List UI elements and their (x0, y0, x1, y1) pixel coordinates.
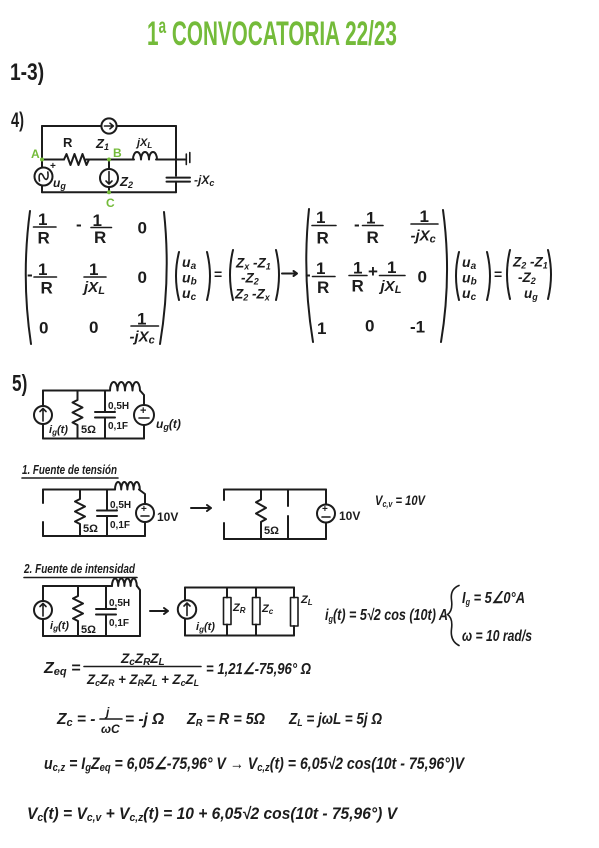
svg-text:0,1F: 0,1F (109, 618, 129, 629)
svg-text:5Ω: 5Ω (81, 424, 96, 436)
current source ig (34, 406, 52, 424)
vector u parens (176, 252, 179, 300)
svg-text:0: 0 (138, 268, 147, 287)
left matrix paren open (26, 211, 31, 344)
title (147, 15, 397, 52)
svg-text:ug(t): ug(t) (156, 417, 181, 432)
svg-text:Vc(t) = Vc,v + Vc,z(t) = 10 +: Vc(t) = Vc,v + Vc,z(t) = 10 + 6,05√2 cos… (27, 805, 399, 824)
svg-text:Zc = -: Zc = - (56, 711, 95, 729)
current source Z1 (101, 118, 116, 133)
svg-text:=: = (214, 266, 222, 282)
current source ig (178, 600, 196, 618)
svg-text:+: + (140, 405, 146, 417)
wire bottom (43, 438, 144, 440)
impedance Zc (255, 588, 257, 636)
svg-text:4): 4) (11, 108, 24, 131)
svg-text:0,1F: 0,1F (110, 520, 130, 531)
voltage source 10V (317, 505, 335, 523)
svg-text:Ig = 5∠0°A: Ig = 5∠0°A (462, 590, 525, 607)
svg-text:R: R (367, 228, 379, 247)
node B (107, 158, 111, 162)
svg-text:1: 1 (317, 319, 326, 338)
wire left (42, 586, 44, 636)
voltage source ug (134, 405, 154, 425)
svg-text:5): 5) (12, 372, 27, 397)
svg-text:B: B (113, 146, 122, 160)
wire bottom (42, 191, 176, 193)
wire left (184, 588, 186, 636)
wire right (139, 490, 145, 537)
svg-text:0: 0 (89, 318, 98, 337)
label 5) (12, 372, 27, 397)
resistor 5ohm (73, 391, 83, 439)
left matrix paren close (160, 212, 167, 344)
svg-text:ig(t): ig(t) (196, 621, 215, 634)
svg-text:+: + (322, 504, 328, 515)
wire right (175, 126, 177, 192)
circuit 1a (43, 482, 178, 536)
circuit 1b (224, 490, 360, 540)
svg-text:5Ω: 5Ω (264, 525, 279, 537)
svg-text:=: = (494, 266, 502, 282)
arrow (282, 271, 297, 276)
wire left (41, 126, 43, 192)
svg-text:ig(t): ig(t) (49, 424, 68, 437)
arrow (191, 505, 211, 511)
capacitor 0.1F (97, 490, 117, 537)
capacitor 0.1F (96, 586, 116, 636)
wire right (293, 588, 295, 636)
svg-text:R: R (38, 229, 50, 248)
svg-text:1: 1 (38, 260, 47, 279)
resistor 5ohm (73, 586, 83, 636)
resistor 5ohm (75, 490, 85, 537)
wire bottom (185, 635, 294, 637)
connector bars (186, 153, 190, 165)
vector z parens (230, 250, 233, 300)
svg-text:-: - (76, 215, 82, 234)
svg-text:0,5H: 0,5H (108, 401, 129, 412)
svg-text:A: A (31, 147, 40, 161)
wire left open (223, 490, 225, 540)
svg-text:0,5H: 0,5H (110, 500, 131, 511)
svg-text:1: 1 (38, 210, 47, 229)
wire top (43, 489, 115, 491)
svg-text:ig(t): ig(t) (50, 620, 69, 633)
voltage source 10V (136, 504, 154, 522)
svg-text:0,5H: 0,5H (109, 598, 130, 609)
svg-text:+: + (141, 504, 147, 515)
node C (107, 190, 111, 194)
wire top (185, 587, 294, 589)
vector u2 parens (456, 252, 459, 300)
svg-text:R: R (94, 228, 106, 247)
svg-text:0: 0 (365, 317, 374, 336)
svg-text:= -j Ω: = -j Ω (125, 711, 164, 728)
open capacitor branch (287, 490, 289, 540)
svg-text:1: 1 (89, 260, 98, 279)
resistor R (64, 154, 89, 165)
svg-text:+: + (50, 161, 56, 172)
svg-text:-: - (305, 265, 311, 284)
inductor 0.5H (110, 382, 140, 391)
wire left open (42, 490, 44, 537)
wire top (43, 390, 110, 392)
svg-text:ωC: ωC (101, 722, 120, 736)
svg-text:Zx -Z1: Zx -Z1 (235, 256, 271, 272)
svg-text:0,1F: 0,1F (108, 421, 128, 432)
svg-text:10V: 10V (157, 510, 178, 524)
brace (448, 586, 460, 646)
svg-text:ω = 10 rad/s: ω = 10 rad/s (462, 628, 532, 645)
wire left (42, 391, 44, 439)
wire top (43, 585, 112, 587)
wire right (140, 391, 144, 439)
node A (40, 158, 44, 162)
wire bottom (43, 535, 145, 537)
wire right (325, 490, 327, 540)
svg-text:1: 1 (316, 259, 325, 278)
circuit 2b (178, 588, 313, 636)
wire right (137, 586, 140, 636)
svg-text:ig(t) = 5√2 cos (10t) A: ig(t) = 5√2 cos (10t) A (325, 607, 448, 624)
inductor 0.5H (112, 578, 137, 586)
svg-text:5Ω: 5Ω (81, 624, 96, 636)
svg-text:1: 1 (316, 208, 325, 227)
inductor 0.5H (115, 482, 140, 490)
svg-text:1: 1 (353, 259, 362, 278)
svg-text:R: R (317, 278, 329, 297)
current source Z2 (108, 160, 110, 193)
impedance ZL (291, 598, 299, 627)
svg-text:1ª CONVOCATORIA 22/23: 1ª CONVOCATORIA 22/23 (147, 15, 397, 52)
wire top (42, 125, 176, 127)
wire top (224, 489, 326, 491)
svg-text:2. Fuente de intensidad: 2. Fuente de intensidad (23, 561, 136, 576)
inductor jXL (133, 152, 157, 159)
svg-text:1-3): 1-3) (10, 58, 44, 86)
current source ig (34, 601, 52, 619)
svg-text:10V: 10V (339, 509, 360, 523)
capacitor -jXc (167, 178, 191, 182)
wire middle (42, 159, 185, 161)
circuit 2a (34, 578, 140, 636)
svg-text:-: - (354, 215, 360, 234)
svg-text:= 1,21∠-75,96° Ω: = 1,21∠-75,96° Ω (206, 661, 311, 678)
svg-text:-: - (27, 265, 33, 284)
right matrix paren close (441, 210, 447, 342)
impedance ZR (226, 588, 228, 636)
label 1-3) (10, 58, 44, 86)
arrow (150, 608, 168, 614)
svg-text:+: + (368, 262, 378, 281)
svg-text:ZL = jωL = 5j Ω: ZL = jωL = 5j Ω (288, 711, 382, 729)
svg-text:ZcZRZL: ZcZRZL (120, 651, 165, 668)
svg-text:1: 1 (366, 209, 375, 228)
label 4) (11, 108, 24, 131)
svg-text:R: R (352, 277, 364, 296)
voltage source Ug (35, 168, 53, 186)
svg-text:0: 0 (138, 219, 147, 238)
svg-text:-1: -1 (410, 318, 425, 337)
svg-text:Z2 -Z1: Z2 -Z1 (512, 255, 548, 271)
right matrix paren open (306, 209, 313, 342)
svg-text:0: 0 (39, 319, 48, 338)
svg-text:R: R (317, 229, 329, 248)
vector z2 parens (507, 250, 510, 299)
svg-text:1. Fuente de tensión: 1. Fuente de tensión (22, 462, 117, 477)
wire bottom (43, 635, 140, 637)
capacitor 0.1F (95, 391, 115, 439)
svg-text:5Ω: 5Ω (83, 523, 98, 535)
svg-text:R: R (63, 135, 73, 150)
svg-text:R: R (41, 279, 53, 298)
svg-text:1: 1 (387, 258, 396, 277)
svg-text:C: C (106, 196, 115, 210)
resistor 5ohm (256, 490, 266, 540)
svg-text:0: 0 (418, 268, 427, 287)
svg-text:1: 1 (420, 207, 429, 226)
wire bottom (224, 538, 326, 540)
